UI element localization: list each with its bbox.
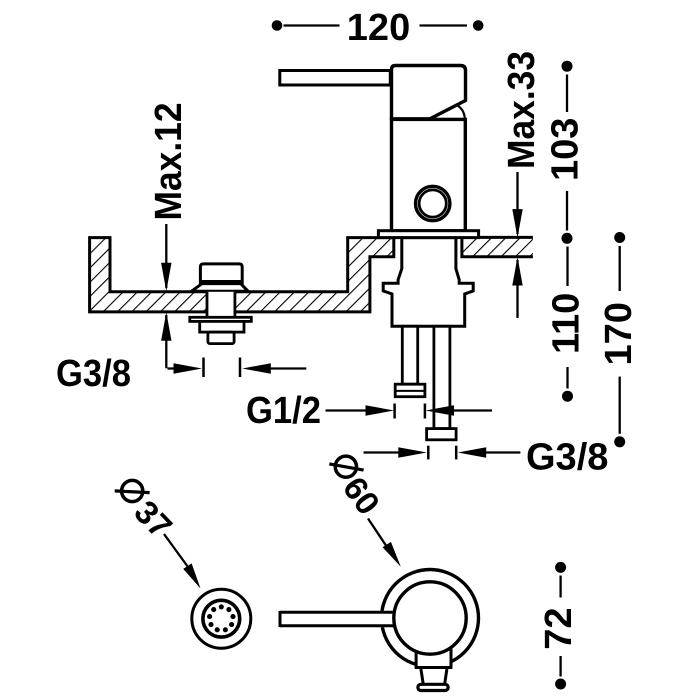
hand shower head inner circle <box>203 600 240 637</box>
chain 103 <box>562 61 573 72</box>
hand shower holder skirt <box>192 284 249 292</box>
hand shower holder tail pipe <box>208 332 234 344</box>
hand shower holder flange below deck <box>190 317 252 321</box>
right supply pipe end fitting G3/8 <box>427 429 457 440</box>
aerator outlet circle outer <box>416 186 450 220</box>
G3/8 left dimension arrows <box>168 367 181 369</box>
G1/2 dimension arrows <box>326 409 371 411</box>
outlet tip flange <box>418 684 448 690</box>
svg-text:110: 110 <box>546 293 588 354</box>
faucet body (side view) <box>392 119 466 230</box>
svg-text:G3/8: G3/8 <box>526 437 608 479</box>
svg-text:Max.12: Max.12 <box>148 103 190 221</box>
aerator outlet circle inner <box>419 190 446 217</box>
svg-text:120: 120 <box>347 7 410 49</box>
dimension 120: right dot <box>473 20 484 31</box>
lever bar top view (covers outer arc) <box>280 611 394 627</box>
mixer top view inner circle <box>394 582 466 654</box>
label Ø60 <box>329 456 387 521</box>
hand shower holder nut <box>200 321 244 332</box>
Max.12 upper line+arrow <box>165 224 167 288</box>
lever handle bar <box>280 71 391 86</box>
deck cross-section right slab, hatched <box>462 237 533 256</box>
left supply pipe end fitting G1/2 <box>395 384 425 397</box>
chain 170 <box>614 232 625 243</box>
left supply pipe <box>402 326 417 384</box>
mixer top view outer circle <box>382 570 479 667</box>
svg-text:170: 170 <box>598 302 640 365</box>
svg-text:G1/2: G1/2 <box>246 390 321 432</box>
dimension 120 top: left dot <box>272 20 283 31</box>
lever handle cap <box>392 66 466 119</box>
svg-text:Max.33: Max.33 <box>501 51 543 169</box>
dimension 120: left line <box>284 24 340 26</box>
hand shower holder thick band <box>200 280 244 285</box>
deck cross-section left (Z profile with left wall), hatched <box>90 238 394 312</box>
dimension 120: right line <box>420 24 468 26</box>
hand shower holder stem through deck <box>207 292 235 318</box>
Max.33 upper line+arrow <box>516 172 518 234</box>
Max.12 lower arrow+line <box>165 315 167 368</box>
cap bottom-right arc detail <box>457 105 465 119</box>
hand shower holder cap on deck <box>200 264 242 284</box>
chain 72 <box>555 562 566 573</box>
outlet neck <box>421 669 423 685</box>
svg-text:G3/8: G3/8 <box>56 353 131 395</box>
svg-text:103: 103 <box>545 118 587 181</box>
faucet under-deck body <box>383 238 473 327</box>
right supply pipe <box>434 326 450 428</box>
Ø37 leader arrow <box>164 534 188 567</box>
svg-text:72: 72 <box>538 607 580 649</box>
label Ø37 <box>115 480 180 545</box>
Ø60 leader arrow <box>368 519 387 548</box>
outlet collar (covers outer arc bottom) <box>416 648 451 668</box>
G3/8 bottom dimension arrows <box>364 451 401 453</box>
hand shower head top view outer circle <box>192 589 251 648</box>
escutcheon base plate <box>378 231 478 238</box>
chain 110 <box>566 247 568 287</box>
hand shower spray nozzle dots <box>207 604 236 632</box>
Max.33 lower arrow+line <box>516 260 518 318</box>
